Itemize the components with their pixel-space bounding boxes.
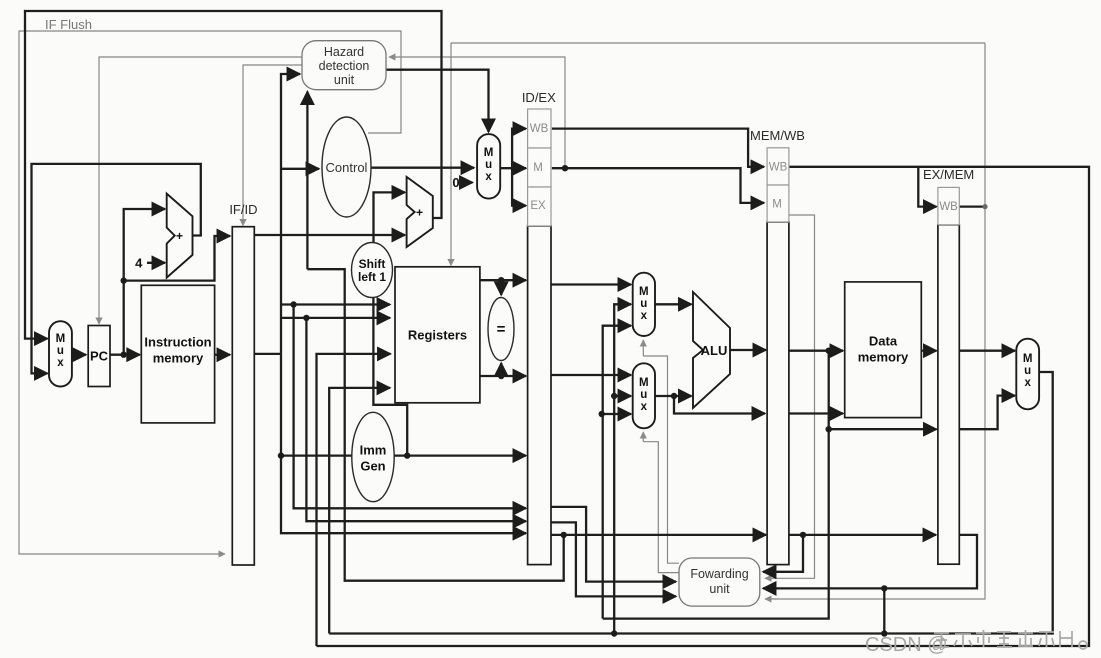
svg-text:M: M	[484, 147, 494, 159]
svg-text:PC: PC	[90, 349, 109, 364]
svg-text:4: 4	[135, 256, 143, 271]
svg-text:Fowarding: Fowarding	[690, 567, 748, 581]
svg-text:x: x	[641, 310, 648, 322]
svg-text:detection: detection	[319, 59, 370, 73]
svg-text:x: x	[485, 171, 492, 183]
svg-text:Registers: Registers	[408, 328, 467, 343]
svg-text:left 1: left 1	[358, 270, 386, 284]
svg-text:EX/MEM: EX/MEM	[923, 167, 974, 182]
svg-text:M: M	[639, 286, 649, 298]
svg-text:Gen: Gen	[360, 459, 385, 474]
svg-text:Control: Control	[326, 160, 368, 175]
svg-text:IF Flush: IF Flush	[45, 17, 92, 32]
svg-text:+: +	[416, 206, 423, 220]
svg-text:u: u	[485, 159, 492, 171]
svg-text:WB: WB	[769, 162, 788, 174]
svg-text:Hazard: Hazard	[324, 45, 364, 59]
svg-text:u: u	[640, 389, 647, 401]
svg-text:M: M	[1023, 353, 1033, 365]
svg-text:ID/EX: ID/EX	[522, 90, 556, 105]
svg-text:MEM/WB: MEM/WB	[750, 128, 805, 143]
svg-text:memory: memory	[153, 351, 204, 366]
svg-text:u: u	[640, 298, 647, 310]
svg-text:M: M	[772, 199, 782, 211]
svg-text:WB: WB	[939, 201, 958, 213]
svg-text:memory: memory	[858, 350, 909, 365]
svg-text:IF/ID: IF/ID	[229, 202, 257, 217]
svg-text:unit: unit	[709, 582, 730, 596]
svg-text:x: x	[641, 401, 648, 413]
svg-text:u: u	[57, 345, 64, 357]
svg-text:EX: EX	[530, 200, 546, 212]
svg-text:M: M	[56, 333, 66, 345]
svg-text:u: u	[1024, 365, 1031, 377]
svg-text:x: x	[57, 357, 64, 369]
svg-text:M: M	[533, 162, 543, 174]
svg-text:unit: unit	[334, 73, 355, 87]
svg-text:Data: Data	[869, 334, 898, 349]
svg-text:=: =	[497, 321, 506, 338]
svg-text:0: 0	[452, 175, 459, 190]
svg-text:Imm: Imm	[360, 443, 387, 458]
svg-text:WB: WB	[530, 123, 549, 135]
svg-text:x: x	[1024, 377, 1031, 389]
svg-text:+: +	[176, 229, 183, 243]
svg-text:ALU: ALU	[701, 343, 728, 358]
svg-text:CSDN @: CSDN @	[865, 634, 948, 656]
svg-text:Shift: Shift	[359, 257, 386, 271]
svg-text:Instruction: Instruction	[144, 335, 211, 350]
svg-text:M: M	[639, 377, 649, 389]
